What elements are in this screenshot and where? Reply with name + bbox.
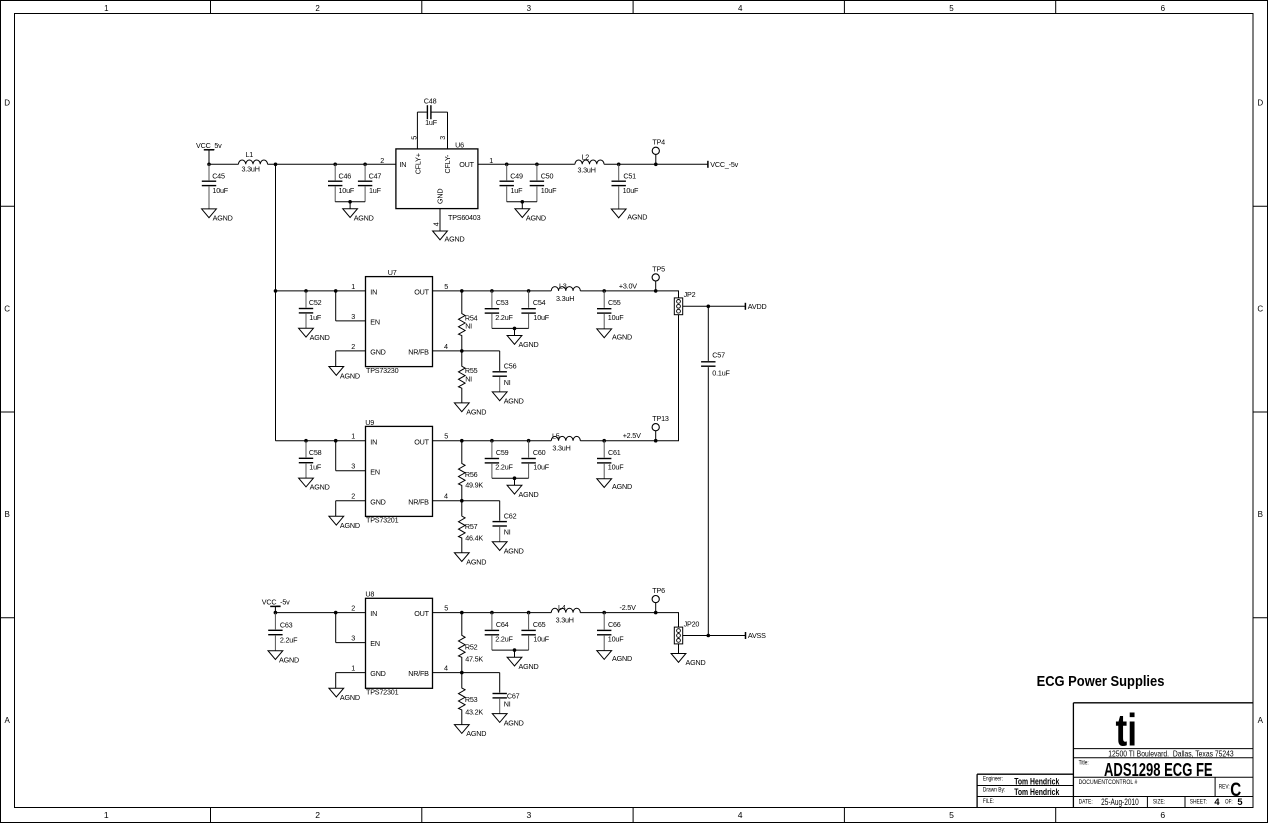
- wire GND branch: [336, 501, 366, 517]
- svg-text:AGND: AGND: [466, 557, 486, 566]
- port AVDD: [745, 302, 766, 311]
- svg-text:4: 4: [738, 4, 743, 13]
- capacitor C58: [299, 441, 322, 478]
- svg-text:AGND: AGND: [310, 483, 330, 492]
- test point TP4: [652, 138, 665, 166]
- IC U9 TPS73201 body: [366, 426, 433, 516]
- ground AGND C52: [299, 328, 330, 342]
- ground AGND C58: [299, 478, 330, 492]
- wire cap pair join: [492, 327, 529, 329]
- svg-text:C63: C63: [280, 620, 293, 629]
- capacitor C49: [500, 164, 524, 202]
- junction C input C52: [304, 289, 308, 293]
- pin 5 OUT label: [414, 282, 448, 297]
- wire stub cap pair ground: [514, 650, 516, 657]
- pin 4 NR/FB label: [408, 664, 448, 679]
- wire JP20 pin3 down: [678, 644, 680, 654]
- wire C46-C47 join: [335, 201, 365, 203]
- jumper JP20: [674, 619, 699, 644]
- junction C64: [490, 611, 494, 615]
- svg-text:C57: C57: [712, 350, 725, 359]
- svg-text:GND: GND: [435, 189, 444, 204]
- svg-text:2: 2: [351, 492, 355, 501]
- junction C53: [490, 289, 494, 293]
- svg-text:B: B: [5, 510, 10, 519]
- svg-text:TPS73201: TPS73201: [366, 516, 399, 525]
- svg-text:TPS72301: TPS72301: [366, 688, 399, 697]
- power port VCC_5v: [196, 141, 222, 164]
- svg-text:AGND: AGND: [310, 333, 330, 342]
- svg-text:4: 4: [444, 342, 448, 351]
- wire CFLY+ pin stub: [416, 112, 418, 149]
- wire JP2 pin2 to AVDD: [683, 305, 746, 307]
- IC U6 TPS60403 body: [396, 149, 478, 209]
- capacitor C63: [268, 613, 298, 651]
- svg-text:46.4K: 46.4K: [465, 534, 483, 543]
- junction C49: [505, 163, 509, 167]
- ground AGND C61: [597, 479, 632, 492]
- pin 2 IN label: [351, 604, 377, 619]
- wire CFLY- pin stub: [447, 112, 449, 149]
- wire cap pair join: [492, 477, 529, 479]
- ground AGND R55: [454, 403, 486, 417]
- pin 1 GND label: [351, 664, 385, 679]
- svg-text:NR/FB: NR/FB: [408, 497, 429, 506]
- junction VCC_5v/C45: [207, 163, 211, 167]
- svg-text:10uF: 10uF: [533, 313, 549, 322]
- junction row2 input: [274, 289, 278, 293]
- svg-text:JP20: JP20: [684, 619, 700, 628]
- svg-text:3: 3: [351, 462, 355, 471]
- ground AGND R53: [454, 725, 486, 739]
- svg-text:AGND: AGND: [354, 213, 374, 222]
- wire C48 right: [431, 111, 447, 113]
- wire GND branch: [336, 351, 366, 367]
- svg-text:Engineer:: Engineer:: [983, 775, 1003, 782]
- junction cap pair ground: [513, 476, 517, 480]
- wire IN rail: [276, 440, 366, 442]
- capacitor C53: [485, 291, 514, 329]
- svg-text:10uF: 10uF: [533, 463, 549, 472]
- wire cap pair join: [492, 649, 529, 651]
- svg-text:TP4: TP4: [652, 138, 665, 147]
- svg-text:TP13: TP13: [652, 414, 669, 423]
- ground AGND C53/C54: [507, 336, 538, 350]
- capacitor C46: [328, 164, 355, 202]
- svg-text:10uF: 10uF: [339, 186, 355, 195]
- junction C49/C50 ground: [521, 200, 525, 204]
- svg-text:1uF: 1uF: [309, 313, 322, 322]
- svg-text:4: 4: [1214, 797, 1220, 807]
- svg-text:R56: R56: [465, 470, 478, 479]
- svg-text:3: 3: [351, 312, 355, 321]
- svg-text:OUT: OUT: [459, 160, 474, 169]
- svg-text:IN: IN: [370, 609, 377, 618]
- ground AGND C51: [611, 209, 647, 222]
- wire OUT rail: [433, 290, 552, 292]
- capacitor C55: [597, 291, 624, 329]
- svg-text:IN: IN: [370, 437, 377, 446]
- svg-text:IN: IN: [370, 288, 377, 297]
- wire IN rail: [276, 290, 366, 292]
- svg-text:5: 5: [444, 604, 448, 613]
- wire EN branch: [336, 441, 366, 471]
- wire OUT rail: [433, 612, 552, 614]
- svg-text:C47: C47: [369, 171, 382, 180]
- svg-text:+3.0V: +3.0V: [619, 281, 637, 290]
- svg-text:L4: L4: [558, 603, 566, 612]
- svg-text:C65: C65: [533, 620, 546, 629]
- pin 1 IN label: [351, 282, 377, 297]
- pin 5 CFLY+ label: [409, 136, 422, 175]
- wire NR/FB rail: [433, 672, 500, 674]
- svg-text:1: 1: [104, 4, 109, 13]
- wire stub cap pair ground: [514, 328, 516, 335]
- svg-text:C49: C49: [510, 171, 523, 180]
- svg-text:-2.5V: -2.5V: [620, 603, 637, 612]
- capacitor C50: [530, 164, 557, 202]
- pin 2 GND label: [351, 492, 385, 507]
- svg-text:1uF: 1uF: [511, 186, 524, 195]
- svg-text:OUT: OUT: [414, 609, 429, 618]
- svg-text:EN: EN: [370, 639, 380, 648]
- svg-text:D: D: [4, 99, 10, 108]
- svg-text:C62: C62: [504, 511, 517, 520]
- svg-text:AGND: AGND: [519, 490, 539, 499]
- wire rail after inductor: [580, 440, 679, 442]
- svg-text:IN: IN: [399, 160, 406, 169]
- svg-text:DATE:: DATE:: [1079, 799, 1093, 806]
- power port VCC_-5v input: [262, 598, 290, 613]
- junction C60: [527, 439, 531, 443]
- svg-text:C50: C50: [541, 171, 554, 180]
- ground AGND C45: [202, 209, 233, 223]
- svg-text:3.3uH: 3.3uH: [556, 294, 574, 303]
- svg-text:AGND: AGND: [519, 662, 539, 671]
- pin 4 NR/FB label: [408, 342, 448, 357]
- svg-text:3.3uH: 3.3uH: [242, 165, 260, 174]
- capacitor C60: [521, 441, 549, 479]
- svg-text:B: B: [1258, 510, 1263, 519]
- capacitor C51: [612, 164, 639, 209]
- svg-text:A: A: [5, 716, 11, 725]
- svg-text:C58: C58: [309, 448, 322, 457]
- svg-text:C59: C59: [496, 448, 509, 457]
- svg-text:AGND: AGND: [504, 718, 524, 727]
- svg-text:NR/FB: NR/FB: [408, 669, 429, 678]
- svg-text:12500 TI Boulevard. Dallas, T: 12500 TI Boulevard. Dallas, Texas 75243: [1108, 748, 1234, 758]
- svg-text:VCC_-5v: VCC_-5v: [262, 598, 290, 607]
- wire rail row1 out: [478, 163, 575, 165]
- svg-text:TP5: TP5: [652, 264, 665, 273]
- svg-text:L1: L1: [246, 150, 254, 159]
- svg-text:C60: C60: [533, 448, 546, 457]
- pin 1 OUT label: [459, 156, 493, 169]
- svg-text:10uF: 10uF: [608, 635, 624, 644]
- wire -2.5V to JP20: [678, 613, 680, 628]
- svg-text:C56: C56: [504, 362, 517, 371]
- port VCC_-5v output: [708, 160, 739, 169]
- resistor R54: [459, 291, 478, 351]
- IC U8 TPS72301 body: [366, 598, 433, 688]
- svg-text:25-Aug-2010: 25-Aug-2010: [1101, 797, 1139, 807]
- junction EN branch: [334, 289, 338, 293]
- svg-text:AVDD: AVDD: [748, 302, 767, 311]
- svg-text:FILE:: FILE:: [983, 798, 994, 805]
- inductor L3: [551, 282, 580, 303]
- wire rail after inductor: [580, 290, 679, 292]
- wire EN branch: [336, 613, 366, 643]
- wire GND branch: [336, 673, 366, 689]
- svg-text:1uF: 1uF: [425, 118, 438, 127]
- svg-text:3.3uH: 3.3uH: [552, 444, 570, 453]
- svg-text:1: 1: [489, 156, 493, 165]
- svg-text:AGND: AGND: [340, 371, 360, 380]
- resistor R55: [459, 351, 478, 403]
- svg-text:10uF: 10uF: [212, 186, 228, 195]
- wire C49-C50 join: [507, 201, 537, 203]
- junction C50: [535, 163, 539, 167]
- svg-text:AGND: AGND: [340, 521, 360, 530]
- svg-text:EN: EN: [370, 318, 380, 327]
- junction R/NR-FB: [460, 349, 464, 353]
- border row dividers left: [1, 206, 15, 618]
- wire IN rail: [275, 612, 365, 614]
- svg-text:10uF: 10uF: [608, 313, 624, 322]
- svg-text:C54: C54: [533, 298, 546, 307]
- svg-text:CFLY+: CFLY+: [413, 153, 422, 174]
- svg-text:AGND: AGND: [612, 332, 632, 341]
- pin 3 EN label: [351, 634, 380, 649]
- svg-text:C: C: [1257, 304, 1263, 313]
- svg-text:6: 6: [1161, 4, 1166, 13]
- svg-text:10uF: 10uF: [623, 186, 639, 195]
- svg-text:L2: L2: [582, 153, 590, 162]
- junction C47: [363, 163, 367, 167]
- svg-text:R52: R52: [465, 642, 478, 651]
- capacitor C64: [485, 613, 514, 651]
- test point TP13: [652, 414, 669, 442]
- wire stub to ground 2: [521, 202, 523, 209]
- pin 5 OUT label: [414, 604, 448, 619]
- ground AGND C67: [492, 714, 523, 728]
- junction EN branch: [334, 611, 338, 615]
- svg-text:4: 4: [444, 664, 448, 673]
- ground AGND U8 GND pin: [329, 688, 360, 702]
- title block frame: [977, 703, 1253, 808]
- inductor L2: [575, 153, 604, 175]
- svg-text:AGND: AGND: [340, 693, 360, 702]
- inductor L1: [238, 150, 267, 174]
- svg-text:R53: R53: [465, 695, 478, 704]
- svg-text:AGND: AGND: [612, 482, 632, 491]
- junction R R52: [460, 611, 464, 615]
- svg-text:2: 2: [380, 156, 384, 165]
- svg-text:GND: GND: [370, 497, 385, 506]
- svg-text:TP6: TP6: [652, 586, 665, 595]
- svg-text:JP2: JP2: [684, 290, 696, 299]
- svg-text:47.5K: 47.5K: [465, 655, 483, 664]
- pin 4 NR/FB label: [408, 492, 448, 507]
- svg-text:3.3uH: 3.3uH: [556, 616, 574, 625]
- svg-text:C53: C53: [496, 298, 509, 307]
- svg-text:2.2uF: 2.2uF: [495, 635, 513, 644]
- capacitor C47: [358, 164, 382, 202]
- svg-text:A: A: [1258, 716, 1264, 725]
- capacitor C57: [701, 306, 730, 635]
- svg-text:Title:: Title:: [1079, 760, 1089, 767]
- svg-text:49.9K: 49.9K: [465, 481, 483, 490]
- wire GND pin stub: [439, 209, 441, 231]
- svg-text:U7: U7: [388, 268, 397, 277]
- svg-text:10uF: 10uF: [541, 186, 557, 195]
- svg-text:VCC_-5v: VCC_-5v: [710, 160, 738, 169]
- pin 3 EN label: [351, 312, 380, 327]
- ground AGND C59/C60: [507, 485, 538, 499]
- svg-text:3: 3: [527, 4, 532, 13]
- svg-text:AGND: AGND: [627, 213, 647, 222]
- ground AGND U9 GND pin: [329, 516, 360, 530]
- capacitor C59: [485, 441, 514, 479]
- capacitor C54: [521, 291, 549, 329]
- ground AGND C49/C50: [515, 209, 546, 223]
- junction R R54: [460, 289, 464, 293]
- border column numbers top: [104, 4, 1166, 13]
- svg-text:C46: C46: [339, 171, 352, 180]
- svg-text:U9: U9: [365, 418, 374, 427]
- junction C54: [527, 289, 531, 293]
- junction C input C58: [304, 439, 308, 443]
- wire stub cap pair ground: [514, 478, 516, 485]
- wire +3.0V to JP2: [678, 291, 680, 298]
- svg-text:10uF: 10uF: [608, 463, 624, 472]
- pin 3 EN label: [351, 462, 380, 477]
- svg-text:OUT: OUT: [414, 288, 429, 297]
- svg-text:AGND: AGND: [445, 235, 465, 244]
- svg-text:AGND: AGND: [519, 340, 539, 349]
- capacitor C56 NI: [493, 351, 517, 392]
- capacitor C67 NI: [493, 673, 520, 714]
- svg-text:CFLY-: CFLY-: [443, 154, 452, 173]
- capacitor C52: [299, 291, 322, 328]
- ground AGND C55: [597, 329, 632, 342]
- junction C66: [602, 611, 606, 615]
- jumper JP2: [674, 290, 695, 315]
- svg-text:R57: R57: [465, 522, 478, 531]
- svg-text:C48: C48: [424, 96, 437, 105]
- svg-text:U6: U6: [455, 140, 464, 149]
- svg-text:5: 5: [1237, 797, 1242, 807]
- resistor R56: [459, 441, 484, 501]
- svg-text:NI: NI: [504, 378, 511, 387]
- svg-text:AGND: AGND: [279, 655, 299, 664]
- svg-text:1uF: 1uF: [369, 186, 382, 195]
- svg-text:2: 2: [351, 604, 355, 613]
- wire rail after inductor: [580, 612, 679, 614]
- svg-text:2.2uF: 2.2uF: [495, 313, 513, 322]
- svg-text:6: 6: [1160, 810, 1165, 820]
- resistor R52: [459, 613, 484, 673]
- test point TP6: [652, 586, 665, 614]
- svg-text:C45: C45: [212, 171, 225, 180]
- svg-text:AVSS: AVSS: [748, 631, 766, 640]
- junction AVSS/C57: [707, 634, 711, 638]
- junction C46: [333, 163, 337, 167]
- svg-text:AGND: AGND: [612, 654, 632, 663]
- svg-text:AGND: AGND: [466, 729, 486, 738]
- ground AGND C56: [492, 392, 523, 406]
- svg-text:SIZE:: SIZE:: [1153, 799, 1165, 806]
- svg-text:1uF: 1uF: [309, 463, 322, 472]
- svg-text:AGND: AGND: [466, 408, 486, 417]
- capacitor C48: [424, 96, 438, 127]
- resistor R53: [459, 673, 484, 725]
- wire JP2 pin3 down: [678, 315, 680, 441]
- wire EN branch: [336, 291, 366, 321]
- resistor R57: [459, 501, 484, 553]
- ground AGND JP20: [671, 654, 705, 668]
- svg-text:AGND: AGND: [686, 658, 706, 667]
- svg-text:AGND: AGND: [526, 213, 546, 222]
- pin 1 IN label: [351, 432, 377, 447]
- svg-text:GND: GND: [370, 669, 385, 678]
- border row letters right: [1257, 99, 1263, 725]
- svg-text:REV:: REV:: [1219, 784, 1230, 791]
- svg-text:5: 5: [444, 282, 448, 291]
- capacitor C66: [597, 613, 624, 651]
- svg-text:3: 3: [351, 634, 355, 643]
- svg-text:DOCUMENTCONTROL #: DOCUMENTCONTROL #: [1079, 779, 1138, 786]
- wire stub to ground: [349, 202, 351, 209]
- svg-text:C: C: [4, 304, 10, 313]
- svg-text:1: 1: [351, 432, 355, 441]
- junction C59: [490, 439, 494, 443]
- border column dividers bottom: [211, 808, 1056, 823]
- svg-text:OUT: OUT: [414, 437, 429, 446]
- ground AGND C63: [268, 651, 299, 665]
- svg-text:5: 5: [949, 4, 954, 13]
- svg-text:D: D: [1257, 99, 1263, 108]
- svg-text:5: 5: [949, 810, 954, 820]
- inductor L4: [551, 603, 580, 624]
- svg-text:3: 3: [527, 810, 532, 820]
- wire rail row1 right: [604, 163, 708, 165]
- svg-text:NR/FB: NR/FB: [408, 348, 429, 357]
- svg-text:C66: C66: [608, 620, 621, 629]
- svg-text:43.2K: 43.2K: [465, 707, 483, 716]
- svg-text:ADS1298 ECG FE: ADS1298 ECG FE: [1104, 759, 1213, 780]
- capacitor C65: [521, 613, 549, 651]
- wire rail row1 mid: [268, 163, 396, 165]
- svg-text:C64: C64: [496, 620, 509, 629]
- ground AGND C46/C47: [343, 209, 374, 223]
- svg-text:C52: C52: [309, 298, 322, 307]
- svg-text:4: 4: [431, 222, 440, 226]
- svg-text:3: 3: [438, 136, 447, 140]
- ground AGND C64/C65: [507, 657, 538, 671]
- svg-text:AGND: AGND: [504, 547, 524, 556]
- svg-text:2.2uF: 2.2uF: [280, 635, 298, 644]
- junction VCC_-5v/C63: [274, 611, 278, 615]
- svg-text:NI: NI: [465, 322, 472, 331]
- inductor L5: [551, 431, 580, 452]
- svg-text:1: 1: [351, 282, 355, 291]
- wire vertical main branch: [275, 164, 277, 440]
- wire NR/FB rail: [433, 350, 500, 352]
- svg-text:Drawn By:: Drawn By:: [983, 787, 1006, 794]
- svg-text:1: 1: [104, 810, 109, 820]
- junction C46/C47 ground: [348, 200, 352, 204]
